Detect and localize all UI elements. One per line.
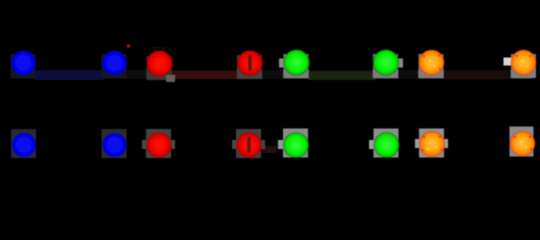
LED D16 package (bottom orange 2) [510,127,534,157]
LED D3 package (top red 1) [147,56,172,80]
red streak bottom row [262,146,277,153]
glow bar blue pair [34,71,104,81]
LED D13 die (bottom green 1) [283,132,309,158]
LED D11 pins [142,140,146,149]
LED D12 package (bottom red 2) [236,129,261,158]
LED D15 die (bottom orange 1) [419,131,445,157]
LED D16 speckles [514,136,532,150]
LED D15 speckles [422,135,443,151]
LED D3 die (top red 1) [146,50,173,77]
LED D16 die (bottom orange 2) [510,131,536,157]
glow bar red pair [171,71,240,79]
red noise marks above LED D3 [152,47,167,52]
LED D15 pins [415,139,419,148]
glow bar green pair [308,72,376,81]
LED D2 package (top blue 2) [102,54,127,78]
red speck near D2 [127,45,130,48]
LED D11 die (bottom red 1) [146,132,172,158]
LED D14 pins [369,140,374,149]
LED D15 package (bottom orange 1) [419,129,444,158]
LED D4 dark stripe [248,55,252,71]
LED D1 package (top blue 1) [11,54,36,78]
LED D6 package (top green 2) [373,54,398,78]
LED D4 die (top red 2) [237,50,263,76]
LED D9 package (bottom blue 1) [11,129,36,158]
LED D7 package (top orange 1) [419,54,444,78]
LED D8 package (top orange 2) [511,54,536,78]
LED D2 die (top blue 2) [102,50,128,76]
LED D1 die (top blue 1) [11,50,37,76]
LED D14 package (bottom green 2) [374,129,399,158]
glow bar orange pair [443,72,504,80]
LED D13 package (bottom green 1) [283,129,308,158]
LED D3 corner patch [166,75,175,82]
LED D9 die (bottom blue 1) [11,132,37,158]
speckles on LED D8 [516,55,531,57]
LED D7 die (top orange 1) [419,50,445,76]
LED D8 die (top orange 2) [511,50,537,76]
LED D6 pins [398,59,403,68]
LED D13 pins [278,140,283,149]
LED D5 package (top green 1) [284,54,309,78]
LED D5 die (top green 1) [283,49,309,75]
strip base bar top row [10,70,532,79]
LED D8 white pin tab [504,58,512,66]
LED D12 pins [232,140,236,149]
LED D11 package (bottom red 1) [146,129,171,158]
speckles on LED D7 [423,54,441,70]
LED D12 dark stripe [247,137,251,153]
LED D10 die (bottom blue 2) [102,132,128,158]
LED D10 package (bottom blue 2) [102,129,127,158]
LED D12 die (bottom red 2) [236,132,262,158]
LED D5 pins [279,59,284,68]
LED D4 package (top red 2) [237,55,262,79]
LED D14 die (bottom green 2) [374,132,400,158]
LED D6 die (top green 2) [373,49,399,75]
